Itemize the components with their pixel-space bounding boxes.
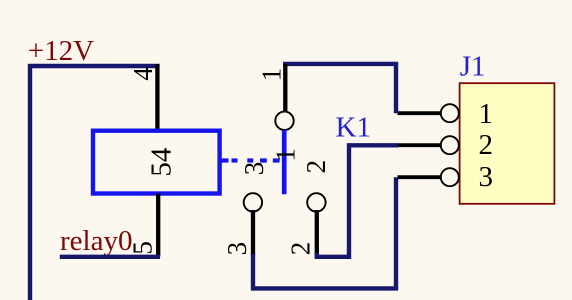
svg-text:2: 2 — [479, 129, 494, 161]
svg-text:1: 1 — [257, 68, 287, 82]
NO contact pin stub — [315, 210, 319, 254]
wire NC contact to J1 pin 3 — [253, 177, 396, 288]
svg-text:3: 3 — [222, 242, 252, 256]
relay actuator link stub — [220, 158, 229, 162]
svg-text:54: 54 — [145, 147, 177, 177]
J1 pin 2 stub — [398, 143, 441, 147]
J1 pin 2 circle — [441, 136, 459, 154]
relay coil body — [93, 131, 220, 194]
J1 pin 1 circle — [441, 104, 459, 122]
svg-text:relay0: relay0 — [60, 225, 132, 257]
NO contact circle — [307, 193, 325, 211]
svg-text:2: 2 — [286, 242, 316, 256]
NC contact circle — [244, 193, 262, 211]
wire relay0 — [60, 255, 160, 259]
svg-text:1: 1 — [479, 98, 494, 130]
relay coil pin 4 stub — [155, 64, 159, 131]
wire NO contact to J1 pin 2 — [317, 145, 398, 256]
relay coil pin 5 stub — [156, 194, 160, 257]
svg-text:3: 3 — [239, 162, 269, 176]
svg-text:2: 2 — [301, 160, 331, 174]
switch common pin stub — [283, 64, 287, 112]
NC contact pin stub — [251, 210, 255, 256]
relay actuator dashed link — [232, 158, 280, 162]
svg-text:3: 3 — [479, 161, 494, 193]
svg-text:4: 4 — [128, 67, 158, 81]
J1 pin 3 stub — [398, 175, 442, 179]
switch armature lever — [282, 130, 287, 195]
switch hinge contact circle — [275, 112, 293, 130]
svg-text:J1: J1 — [460, 51, 486, 83]
svg-text:+12V: +12V — [28, 35, 94, 67]
svg-text:K1: K1 — [336, 112, 371, 144]
connector J1 body — [460, 83, 555, 204]
J1 pin 3 circle — [441, 168, 459, 186]
svg-text:1: 1 — [271, 148, 301, 162]
J1 pin 1 stub — [398, 111, 442, 115]
wire switch common to J1 pin 1 — [283, 64, 396, 113]
wire +12V rail — [30, 66, 160, 300]
